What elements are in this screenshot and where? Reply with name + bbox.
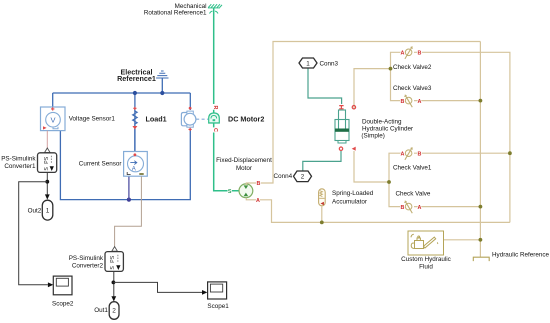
svg-text:R: R [212,106,218,110]
wire conn3 to cylinder rod [308,68,342,104]
label Voltage Sensor1 [69,116,116,123]
svg-text:A: A [401,51,405,57]
svg-text:2: 2 [301,174,305,181]
svg-text:B: B [256,181,260,187]
label Fixed-Displacement Motor [216,157,272,172]
svg-text:Hydraulic Reference: Hydraulic Reference [492,252,550,259]
converter PS-Simulink Converter1 [38,148,57,172]
svg-text:A: A [132,167,136,173]
node check valve2 A junction [389,67,393,71]
actuator Double-Acting Hydraulic Cylinder [335,110,349,143]
label Load1 plus mark [133,107,136,110]
ground Electrical Reference1 [156,71,168,78]
wire bottom bus up right vertical [414,52,510,222]
label cylinder B port mark [352,147,356,151]
svg-text:Motor: Motor [236,165,252,172]
svg-text:A: A [256,198,260,204]
accumulator Spring-Loaded Accumulator [319,189,326,206]
node current sensor minus junction [127,198,131,202]
converter PS-Simulink Converter2 [105,247,123,272]
node out2 branch junction [45,180,49,184]
svg-text:Check Valve2: Check Valve2 [393,64,432,71]
node electrical reference junction [160,91,164,95]
label Spring-Loaded Accumulator [332,190,374,205]
svg-text:A: A [417,205,421,211]
svg-text:Converter2: Converter2 [72,262,104,269]
wire converter2 output [113,271,115,296]
svg-text:PS-Simulink: PS-Simulink [1,156,36,163]
svg-text:Load1: Load1 [146,115,167,124]
svg-text:Reference1: Reference1 [117,74,156,83]
label Load1 text [146,115,167,124]
transducer DC Motor2 mechanical [209,113,220,123]
wire top electrical rail [53,92,191,94]
label Check Valve1 [393,165,432,172]
wire mechanical rotational shaft [213,8,215,127]
svg-text:Fixed-Displacement: Fixed-Displacement [216,157,272,164]
connection port Conn3 [299,58,317,68]
wire right bus B vertical [479,42,481,258]
node check valve1 B junction [508,151,512,155]
scope Scope1 [208,282,227,299]
label Conn3 [320,61,339,68]
arrowhead into out1 [111,296,116,301]
label Scope2 [52,300,74,307]
wire voltage sensor plus drop [52,93,54,107]
valve Check Valve1 [401,147,422,160]
wire PS voltage sensor to converter1 [46,131,48,149]
arrowhead into scope1 [202,290,207,295]
svg-text:B: B [417,51,421,57]
svg-text:Out1: Out1 [94,307,108,314]
wire cylinder top port to check valves [354,69,391,110]
svg-text:Voltage Sensor1: Voltage Sensor1 [69,116,116,123]
svg-text:Check Valve1: Check Valve1 [393,165,432,172]
label PS-Simulink Converter1 [1,156,36,171]
svg-text:Scope1: Scope1 [207,303,229,310]
valve Check Valve3 [401,95,422,108]
label Fixed-Displacement Motor S port [228,189,232,195]
label Check Valve2 [393,64,432,71]
svg-text:Spring-Loaded: Spring-Loaded [332,190,374,197]
wire motor A to bottom bus [246,198,510,223]
op-amp Current Sensor [124,152,148,177]
wire cylinder case to conn4 [303,151,341,171]
label Conn4 [274,173,293,180]
svg-text:Custom Hydraulic: Custom Hydraulic [401,256,451,263]
svg-text:B: B [417,152,421,158]
wire custom hydraulic fluid link [444,239,481,241]
svg-text:Fluid: Fluid [419,264,433,271]
svg-text:B: B [401,205,405,211]
svg-text:PS-Simulink: PS-Simulink [69,255,104,262]
svg-text:V: V [50,115,55,124]
valve Check Valve2 [401,46,422,59]
svg-text:S: S [110,266,116,270]
svg-text:PS: PS [44,156,50,163]
ground Hydraulic Reference [473,257,490,261]
wire bottom rail left segment [60,131,128,200]
wire electrical reference stem [161,79,163,94]
wire current sensor minus drop [128,176,130,199]
label Check Valve3 [393,85,432,92]
motor DC Motor2 electrical [181,107,196,131]
wire check valve3 right leg [414,100,480,102]
label cylinder A port mark [339,147,342,150]
node accumulator junction [320,221,324,225]
wire motor B up and across to right bus [246,42,480,186]
label Current Sensor [79,161,122,168]
svg-text:Check Valve3: Check Valve3 [393,85,432,92]
svg-text:2: 2 [112,308,116,315]
label Out1 [94,307,108,314]
wire dc motor minus to bottom rail [129,129,190,200]
svg-text:Scope2: Scope2 [52,300,74,307]
svg-text:C: C [212,128,218,132]
svg-text:B: B [401,99,405,105]
wire load1 bottom to current sensor [134,129,136,152]
wire converter1 output [46,172,48,194]
svg-text:A: A [401,152,405,158]
block Custom Hydraulic Fluid [408,231,444,255]
pump Fixed-Displacement Motor [239,184,253,198]
wire branch to scope1 [113,282,202,292]
label Out2 [28,207,42,214]
wire dc motor plus drop [189,93,191,110]
resistor Load1 [133,109,138,127]
svg-text:S: S [44,167,50,171]
svg-text:Out2: Out2 [28,207,42,214]
outport Out1 [109,302,119,320]
node check valve B junction lower left [387,180,391,184]
label Electrical Reference1 [117,68,156,84]
label Double-Acting Hydraulic Cylinder [361,119,413,140]
node load1 top junction [133,91,137,95]
svg-text:Check Valve: Check Valve [396,191,431,198]
svg-text:1: 1 [306,60,310,67]
ground Mechanical Rotational Reference1 [208,4,222,13]
wire cylinder bottom port to check valves [354,151,389,182]
node out1 branch junction [112,281,116,285]
svg-text:A: A [417,99,421,105]
wire check valve2 left leg [391,52,404,100]
op-amp Voltage Sensor1 [41,107,66,131]
wire load1 branch [134,93,136,152]
wire check valve1 right leg [414,152,510,154]
wire dc motor C to fixed-displacement motor [214,133,239,191]
wire dc motor dashed link [196,118,208,120]
label motor A port [256,198,260,204]
valve Check Valve [401,201,422,214]
svg-text:(Simple): (Simple) [361,133,384,140]
svg-text:S: S [228,189,232,195]
node check valve A junction lower right [479,205,483,209]
arrowhead into scope2 [48,282,53,287]
wire PS current sensor to converter2 [115,176,142,247]
label Mechanical Rotational Reference1 [144,3,207,17]
connection port Conn4 [294,171,312,182]
label DC Motor2 R port [212,106,218,110]
label DC Motor2 C port [212,128,218,132]
wire branch to scope2 [19,182,48,285]
svg-text:Rotational Reference1: Rotational Reference1 [144,10,207,17]
svg-text:Converter1: Converter1 [4,163,36,170]
svg-text:DC Motor2: DC Motor2 [228,115,264,124]
label cylinder C port mark [352,106,355,109]
label Check Valve [396,191,431,198]
label Scope1 [207,303,229,310]
scope Scope2 [53,276,72,295]
label Custom Hydraulic Fluid [401,256,451,271]
label cylinder R port mark [339,106,343,109]
svg-text:Accumulator: Accumulator [332,198,367,205]
label Hydraulic Reference [492,252,550,259]
outport Out2 [42,200,53,220]
svg-text:Current Sensor: Current Sensor [79,161,122,168]
wire accumulator stem [321,207,323,223]
node check valve3 A junction [479,99,483,103]
svg-text:Conn4: Conn4 [274,173,293,180]
svg-text:Hydraulic Cylinder: Hydraulic Cylinder [362,126,413,133]
label PS-Simulink Converter2 [69,255,104,269]
label motor B port [256,181,260,187]
svg-text:Conn3: Conn3 [320,61,339,68]
label Load1 minus mark [132,126,137,129]
svg-text:PS: PS [110,255,116,262]
wire check valve1 left leg [389,153,404,206]
label DC Motor2 [228,115,264,124]
svg-text:Double-Acting: Double-Acting [362,119,402,126]
arrowhead into out2 [45,194,50,199]
svg-text:1: 1 [46,208,50,215]
wire check valve bottom right leg [414,206,480,208]
node hydraulic fluid junction [479,238,483,242]
